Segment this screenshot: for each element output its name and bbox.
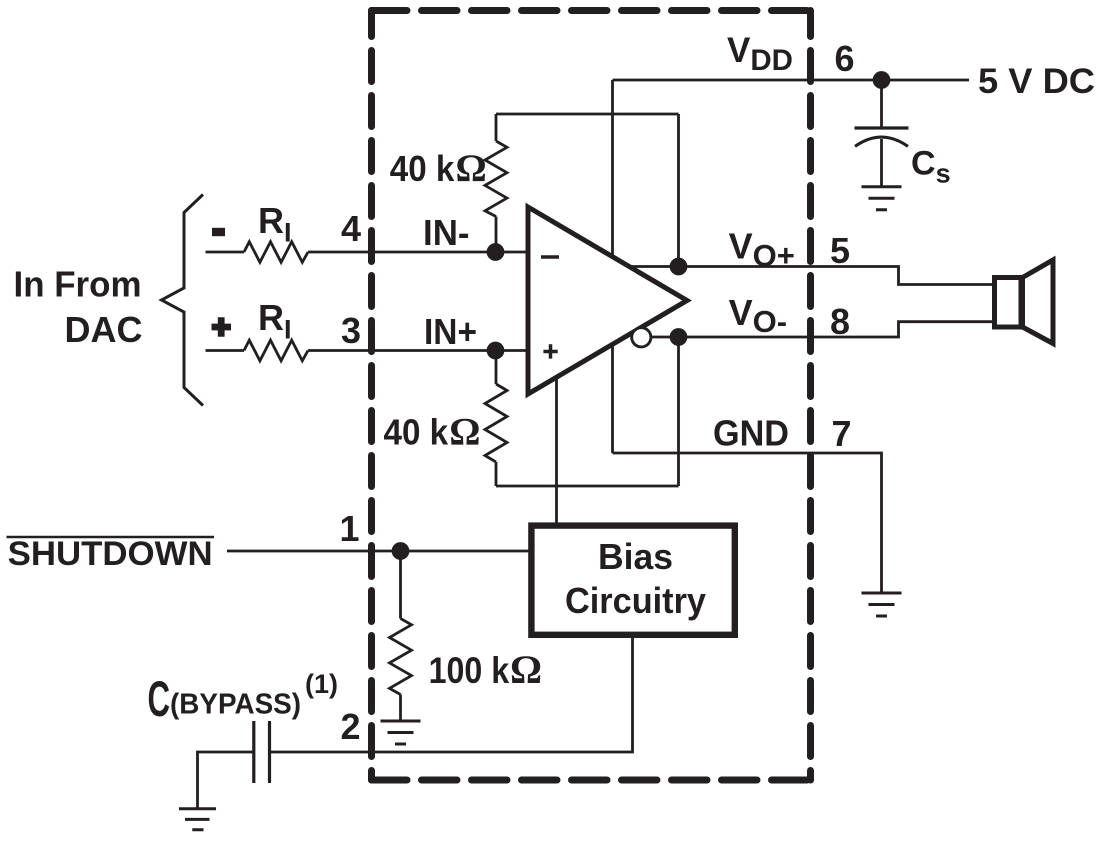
svg-text:GND: GND (713, 413, 789, 454)
wire 100k lead lower (399, 695, 402, 722)
Bias Circuitry box (531, 526, 734, 635)
label plus polarity (212, 317, 232, 337)
svg-text:40 k: 40 k (384, 412, 449, 453)
wire feedback bottom (496, 485, 679, 488)
speaker driver (995, 278, 1022, 328)
svg-text:7: 7 (831, 413, 851, 454)
wire feedback bottom vertical (677, 337, 680, 486)
input brace (162, 195, 204, 406)
svg-text:2: 2 (340, 706, 360, 747)
capacitor Cs lead (880, 80, 883, 128)
svg-text:VDD: VDD (727, 31, 793, 77)
wire IN- lead left (206, 251, 245, 254)
wire Cs to ground (880, 139, 883, 187)
wire IN+ lead left (206, 349, 245, 352)
SHUTDOWN overline (7, 536, 215, 538)
wire 100k lead upper (399, 551, 402, 619)
wire VO- output (650, 322, 994, 337)
wire SHUTDOWN (227, 550, 532, 553)
resistor 40k (upper) (485, 141, 507, 217)
node shutdown pin1 (392, 542, 410, 560)
svg-text:5 V DC: 5 V DC (978, 62, 1095, 101)
wire 40k bottom lead upper (495, 351, 498, 385)
wire VDD rail (613, 79, 970, 82)
wire 40k top lead lower (495, 217, 498, 253)
svg-text:5: 5 (830, 230, 850, 271)
ground 100k (381, 721, 421, 744)
label minus polarity (212, 228, 225, 236)
node VO- (670, 328, 688, 346)
svg-text:3: 3 (341, 310, 361, 351)
svg-text:1: 1 (339, 508, 359, 549)
resistor RI (upper) (244, 242, 308, 263)
speaker cone (1023, 260, 1054, 344)
wire VO+ output (629, 267, 993, 285)
wire 40k bottom lead lower (495, 462, 498, 486)
resistor RI (lower) (244, 340, 308, 361)
svg-text:DAC: DAC (65, 309, 143, 350)
ground pin7 (862, 593, 902, 616)
wire bias bottom to pin2 (270, 635, 633, 753)
svg-text:Ω: Ω (449, 411, 480, 454)
capacitor Cs top plate (855, 126, 909, 129)
ground Cs (862, 187, 902, 210)
wire IN- to op-amp (308, 251, 528, 254)
wire GND rail (613, 453, 882, 593)
svg-text:Ω: Ω (510, 647, 542, 692)
wire 40k top lead upper (495, 114, 498, 141)
svg-text:40 k: 40 k (390, 148, 455, 189)
svg-text:Cs: Cs (911, 145, 951, 189)
svg-text:4: 4 (341, 208, 361, 249)
svg-text:100 k: 100 k (429, 650, 510, 691)
svg-text:VO-: VO- (729, 292, 787, 339)
resistor 100k (390, 619, 412, 695)
svg-text:RI: RI (258, 297, 292, 345)
svg-text:SHUTDOWN: SHUTDOWN (8, 535, 213, 573)
capacitor Cbypass plates (254, 721, 270, 783)
wire VDD vertical through amp (611, 80, 614, 453)
wire IN+ to op-amp (308, 349, 528, 352)
svg-text:C: C (148, 671, 171, 727)
svg-text:Circuitry: Circuitry (565, 580, 706, 621)
wire bias top connect (555, 370, 558, 526)
wire feedback top (496, 113, 679, 116)
op-amp inversion bubble (632, 328, 651, 347)
svg-text:(1): (1) (305, 669, 338, 699)
svg-text:Ω: Ω (456, 147, 487, 190)
IC boundary dashed box (372, 11, 811, 781)
node VDD pin6 (873, 71, 891, 89)
svg-text:IN-: IN- (423, 212, 470, 253)
capacitor Cs curved plate (855, 137, 908, 146)
node VO+ (670, 258, 688, 276)
svg-text:6: 6 (834, 38, 854, 79)
svg-text:IN+: IN+ (424, 311, 477, 352)
op-amp triangle (528, 207, 687, 394)
svg-text:VO+: VO+ (729, 226, 795, 274)
wire feedback top vertical (677, 114, 680, 267)
svg-text:In From: In From (14, 264, 142, 305)
svg-text:(BYPASS): (BYPASS) (170, 689, 301, 721)
node IN- (487, 243, 505, 261)
op-amp minus input mark (541, 255, 559, 259)
node IN+ (487, 342, 505, 360)
wire pin2 to ground (198, 752, 254, 808)
svg-text:8: 8 (830, 301, 850, 342)
op-amp plus input mark (543, 344, 557, 358)
svg-text:Bias: Bias (598, 536, 673, 577)
ground Cbypass (179, 809, 216, 830)
svg-text:RI: RI (258, 200, 292, 248)
resistor 40k (lower) (485, 384, 507, 462)
